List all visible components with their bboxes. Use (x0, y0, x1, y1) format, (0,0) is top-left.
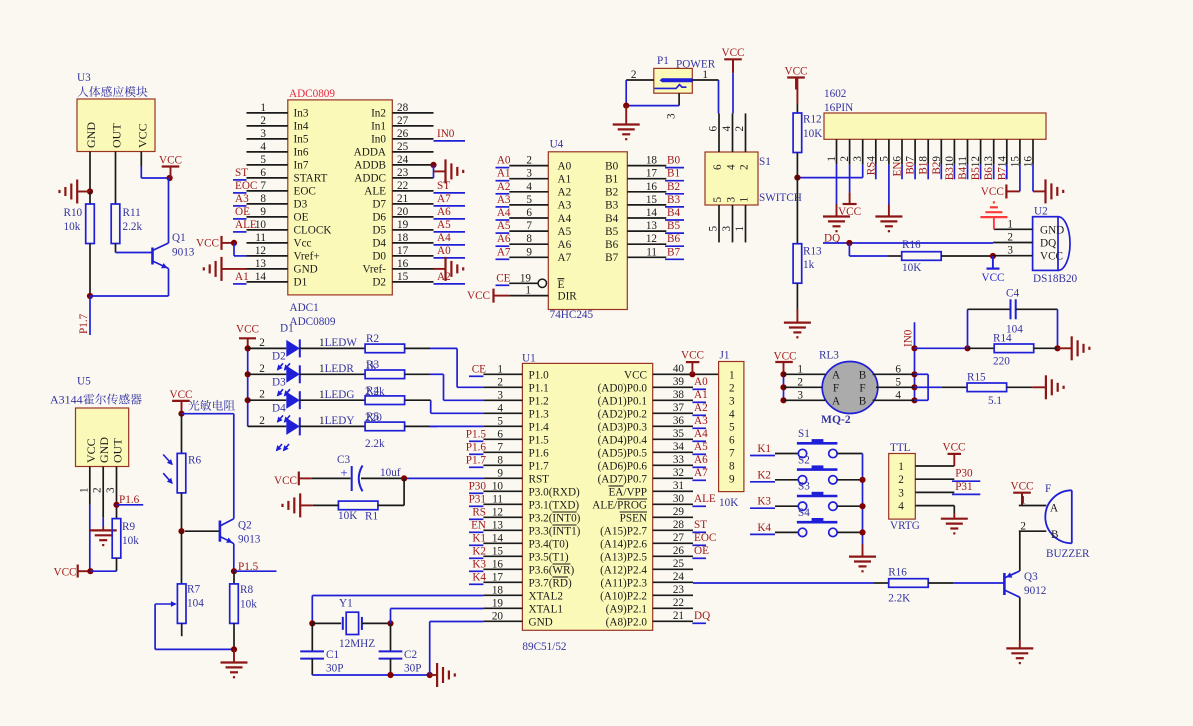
svg-text:ALE: ALE (364, 186, 386, 198)
svg-text:VCC: VCC (236, 324, 259, 336)
svg-text:7: 7 (497, 441, 503, 453)
svg-text:A3: A3 (235, 193, 249, 205)
svg-text:18: 18 (397, 232, 409, 244)
svg-text:1LEDY: 1LEDY (319, 415, 354, 427)
svg-text:VCC: VCC (467, 290, 490, 302)
svg-text:VCC: VCC (169, 389, 192, 401)
svg-text:12: 12 (646, 233, 657, 245)
svg-text:IN0: IN0 (437, 128, 455, 140)
svg-text:12MHZ: 12MHZ (339, 638, 375, 650)
svg-text:VCC: VCC (681, 350, 704, 362)
svg-text:K1: K1 (757, 443, 771, 455)
svg-text:MQ-2: MQ-2 (821, 413, 851, 426)
svg-text:D4: D4 (372, 238, 386, 250)
svg-text:5: 5 (708, 226, 720, 232)
svg-text:22: 22 (673, 597, 684, 609)
svg-text:D6: D6 (372, 212, 386, 224)
svg-text:3: 3 (726, 197, 738, 203)
svg-text:9012: 9012 (1024, 585, 1046, 597)
svg-text:D1: D1 (280, 323, 294, 335)
svg-text:CE: CE (472, 363, 486, 375)
svg-text:4: 4 (721, 126, 733, 132)
svg-text:36: 36 (673, 415, 685, 427)
svg-text:In2: In2 (371, 108, 386, 120)
svg-text:R8: R8 (240, 584, 253, 596)
svg-text:9013: 9013 (172, 247, 195, 259)
svg-text:9013: 9013 (238, 534, 261, 546)
svg-text:B7: B7 (667, 246, 680, 258)
svg-text:A1: A1 (558, 174, 572, 186)
svg-text:1: 1 (826, 156, 838, 162)
svg-text:P3.6(WR): P3.6(WR) (529, 564, 575, 576)
svg-text:ADDB: ADDB (354, 160, 386, 172)
svg-text:R15: R15 (967, 371, 986, 383)
svg-text:A1: A1 (694, 389, 708, 401)
svg-text:39: 39 (673, 376, 685, 388)
svg-text:(AD6)P0.6: (AD6)P0.6 (598, 460, 648, 472)
svg-text:B6: B6 (667, 233, 680, 245)
svg-text:S3: S3 (798, 481, 810, 493)
svg-text:R14: R14 (993, 333, 1012, 345)
svg-text:B: B (1051, 529, 1058, 541)
svg-text:2: 2 (259, 337, 265, 349)
svg-text:5: 5 (497, 415, 503, 427)
svg-text:22: 22 (397, 180, 408, 192)
svg-text:(A15)P2.7: (A15)P2.7 (600, 525, 647, 537)
svg-text:1k: 1k (803, 259, 815, 271)
svg-text:R13: R13 (803, 246, 822, 258)
svg-text:26: 26 (397, 128, 409, 140)
svg-text:P1.5: P1.5 (529, 434, 550, 446)
svg-text:D4: D4 (272, 403, 286, 415)
svg-text:10k: 10k (240, 599, 257, 611)
svg-text:24: 24 (397, 154, 409, 166)
svg-text:C4: C4 (1006, 288, 1019, 300)
svg-text:B1: B1 (667, 168, 680, 180)
svg-text:R2: R2 (366, 333, 379, 345)
svg-text:In3: In3 (294, 108, 309, 120)
svg-text:2.2K: 2.2K (888, 593, 910, 605)
svg-text:A0: A0 (558, 160, 572, 172)
svg-text:38: 38 (673, 389, 685, 401)
svg-text:P1.5: P1.5 (466, 428, 487, 440)
svg-text:GND: GND (1040, 224, 1064, 236)
svg-text:VCC: VCC (1040, 251, 1063, 263)
svg-text:25: 25 (673, 558, 685, 570)
svg-text:GND: GND (97, 437, 111, 463)
svg-text:XTAL1: XTAL1 (529, 603, 564, 615)
svg-text:24: 24 (673, 571, 685, 583)
svg-text:5: 5 (526, 194, 532, 206)
svg-text:A4: A4 (497, 207, 511, 219)
svg-text:B3: B3 (667, 194, 680, 206)
svg-text:IN0: IN0 (903, 329, 915, 347)
svg-text:A7: A7 (437, 193, 451, 205)
svg-text:5.1: 5.1 (988, 395, 1002, 407)
svg-text:3: 3 (898, 487, 904, 499)
svg-text:7: 7 (729, 447, 735, 459)
svg-text:B4: B4 (605, 213, 618, 225)
svg-text:5: 5 (878, 156, 890, 162)
svg-text:28: 28 (673, 519, 685, 531)
svg-text:28: 28 (397, 102, 409, 114)
svg-text:R1: R1 (365, 511, 378, 523)
svg-text:PSEN: PSEN (620, 512, 647, 524)
svg-text:S2: S2 (798, 454, 810, 466)
svg-text:B3: B3 (605, 200, 618, 212)
svg-text:37: 37 (673, 402, 685, 414)
svg-text:OE: OE (694, 545, 709, 557)
svg-text:15: 15 (492, 545, 504, 557)
svg-text:C1: C1 (326, 649, 339, 661)
svg-text:P3.7(RD): P3.7(RD) (529, 577, 572, 589)
svg-text:11: 11 (646, 246, 657, 258)
svg-text:P1.7: P1.7 (529, 460, 550, 472)
svg-text:15: 15 (646, 194, 658, 206)
svg-text:VCC: VCC (838, 206, 861, 218)
svg-text:TTL: TTL (890, 442, 911, 454)
svg-text:EOC: EOC (694, 532, 716, 544)
svg-text:D1: D1 (294, 277, 308, 289)
svg-text:(A14)P2.6: (A14)P2.6 (600, 538, 647, 550)
svg-text:3: 3 (721, 226, 733, 232)
svg-text:9: 9 (497, 467, 503, 479)
svg-text:20: 20 (492, 610, 504, 622)
svg-text:A2: A2 (694, 402, 708, 414)
svg-text:K4: K4 (757, 522, 771, 534)
svg-text:RL3: RL3 (819, 349, 839, 361)
svg-text:2: 2 (92, 487, 104, 493)
svg-text:4: 4 (260, 141, 266, 153)
svg-text:74HC245: 74HC245 (550, 309, 594, 321)
svg-text:U5: U5 (77, 376, 91, 388)
svg-text:P1.5: P1.5 (238, 561, 259, 573)
svg-text:A2: A2 (437, 271, 451, 283)
svg-text:D3: D3 (272, 377, 286, 389)
svg-text:8: 8 (260, 193, 266, 205)
svg-text:31: 31 (673, 480, 684, 492)
svg-text:1: 1 (525, 285, 531, 297)
svg-text:B5: B5 (605, 226, 618, 238)
svg-text:A3: A3 (497, 194, 511, 206)
svg-text:2: 2 (739, 164, 751, 170)
svg-text:P1.1: P1.1 (529, 382, 549, 394)
svg-text:17: 17 (397, 245, 409, 257)
svg-text:VCC: VCC (942, 442, 965, 454)
svg-text:D0: D0 (372, 251, 386, 263)
svg-text:U2: U2 (1034, 206, 1048, 218)
svg-text:B7: B7 (605, 252, 618, 264)
svg-text:11: 11 (492, 493, 503, 505)
svg-text:8: 8 (497, 454, 503, 466)
svg-text:B4: B4 (667, 207, 680, 219)
svg-text:2: 2 (631, 69, 637, 81)
svg-text:10K: 10K (719, 497, 738, 509)
svg-text:A0: A0 (694, 376, 708, 388)
svg-text:19: 19 (397, 219, 409, 231)
svg-text:VCC: VCC (721, 47, 744, 59)
svg-text:GND: GND (294, 264, 318, 276)
svg-text:9: 9 (729, 473, 735, 485)
svg-text:VCC: VCC (196, 237, 219, 249)
svg-text:21: 21 (397, 193, 408, 205)
svg-text:3: 3 (666, 113, 678, 119)
svg-text:26: 26 (673, 545, 685, 557)
svg-text:P31: P31 (955, 481, 972, 493)
svg-text:P3.2(INT0): P3.2(INT0) (529, 512, 581, 524)
svg-text:1: 1 (260, 102, 266, 114)
svg-text:33: 33 (673, 454, 685, 466)
svg-text:P1.4: P1.4 (529, 421, 550, 433)
svg-text:35: 35 (673, 428, 685, 440)
svg-text:20: 20 (397, 206, 409, 218)
svg-text:B0: B0 (667, 155, 680, 167)
svg-text:2.2k: 2.2k (123, 221, 143, 233)
svg-text:3: 3 (260, 128, 266, 140)
svg-text:A4: A4 (437, 232, 451, 244)
svg-text:K3: K3 (757, 496, 771, 508)
svg-text:30P: 30P (326, 663, 343, 675)
svg-text:16: 16 (397, 258, 409, 270)
svg-text:2: 2 (1020, 521, 1026, 533)
svg-text:A2: A2 (497, 181, 511, 193)
svg-text:CE: CE (496, 272, 510, 284)
svg-text:3: 3 (797, 389, 803, 401)
svg-text:Q2: Q2 (238, 520, 252, 532)
svg-text:R7: R7 (187, 584, 200, 596)
svg-text:23: 23 (397, 167, 409, 179)
svg-text:R11: R11 (123, 207, 141, 219)
svg-text:5: 5 (729, 421, 735, 433)
svg-text:VCC: VCC (53, 567, 76, 579)
svg-text:A1: A1 (497, 168, 511, 180)
svg-text:1: 1 (497, 363, 503, 375)
svg-text:17: 17 (646, 168, 658, 180)
svg-text:F: F (1045, 483, 1051, 495)
svg-text:7: 7 (526, 220, 532, 232)
svg-text:Vref-: Vref- (362, 264, 386, 276)
svg-text:6: 6 (712, 164, 724, 170)
svg-text:A6: A6 (694, 454, 708, 466)
svg-text:2: 2 (259, 363, 265, 375)
svg-text:EN: EN (471, 519, 486, 531)
svg-text:D2: D2 (272, 351, 286, 363)
svg-text:P1.2: P1.2 (529, 395, 549, 407)
svg-text:E: E (558, 279, 565, 291)
svg-text:P1.7: P1.7 (466, 454, 487, 466)
svg-text:2: 2 (734, 126, 746, 132)
svg-text:14: 14 (255, 271, 267, 283)
svg-text:In5: In5 (294, 134, 309, 146)
svg-text:29: 29 (673, 506, 685, 518)
svg-text:OUT: OUT (111, 438, 125, 463)
svg-text:EOC: EOC (294, 186, 316, 198)
svg-text:A4: A4 (694, 428, 708, 440)
svg-text:10K: 10K (338, 510, 357, 522)
svg-text:GND: GND (529, 616, 553, 628)
svg-text:4: 4 (726, 164, 738, 170)
svg-text:P3.5(T1): P3.5(T1) (529, 551, 569, 563)
svg-text:4: 4 (497, 402, 503, 414)
svg-text:9: 9 (260, 206, 266, 218)
svg-text:EA/VPP: EA/VPP (608, 486, 647, 498)
svg-text:A6: A6 (497, 233, 511, 245)
svg-text:6: 6 (708, 126, 720, 132)
svg-text:Q1: Q1 (172, 232, 186, 244)
svg-text:In4: In4 (294, 121, 309, 133)
svg-text:In1: In1 (371, 121, 386, 133)
svg-text:3: 3 (526, 168, 532, 180)
svg-text:(A10)P2.2: (A10)P2.2 (600, 590, 647, 602)
svg-text:13: 13 (492, 519, 504, 531)
svg-text:13: 13 (646, 220, 658, 232)
svg-text:D2: D2 (372, 277, 386, 289)
svg-text:S4: S4 (798, 507, 810, 519)
svg-text:3: 3 (1007, 245, 1013, 257)
svg-text:34: 34 (673, 441, 685, 453)
svg-text:ADDC: ADDC (354, 173, 386, 185)
svg-text:Vref+: Vref+ (294, 251, 320, 263)
svg-text:R16: R16 (902, 239, 921, 251)
svg-text:ALE: ALE (235, 219, 257, 231)
svg-text:U1: U1 (522, 353, 536, 365)
svg-text:2: 2 (260, 115, 266, 127)
svg-text:P31: P31 (469, 493, 486, 505)
svg-text:(AD3)P0.3: (AD3)P0.3 (598, 421, 648, 433)
svg-text:P30: P30 (955, 468, 973, 480)
svg-text:104: 104 (187, 598, 204, 610)
svg-text:(AD2)P0.2: (AD2)P0.2 (598, 408, 647, 420)
svg-text:VCC: VCC (1010, 481, 1033, 493)
svg-text:A: A (1050, 503, 1058, 515)
svg-text:1: 1 (797, 363, 803, 375)
svg-text:ST: ST (694, 519, 707, 531)
svg-text:OE: OE (294, 212, 309, 224)
svg-text:2: 2 (259, 415, 265, 427)
svg-text:A7: A7 (694, 467, 708, 479)
svg-text:30P: 30P (404, 663, 421, 675)
svg-text:VCC: VCC (981, 272, 1004, 284)
svg-text:10k: 10k (122, 535, 139, 547)
svg-text:DIR: DIR (558, 290, 578, 302)
svg-text:A5: A5 (497, 220, 511, 232)
svg-text:D7: D7 (372, 199, 386, 211)
svg-text:VCC: VCC (159, 154, 182, 166)
svg-text:12: 12 (492, 506, 503, 518)
svg-text:2: 2 (497, 376, 503, 388)
svg-text:VRTG: VRTG (890, 520, 920, 532)
svg-text:6: 6 (895, 363, 901, 375)
svg-text:27: 27 (673, 532, 685, 544)
svg-text:B6: B6 (605, 239, 618, 251)
svg-text:3: 3 (852, 156, 864, 162)
svg-text:(AD0)P0.0: (AD0)P0.0 (598, 382, 648, 394)
svg-text:220: 220 (993, 356, 1010, 368)
svg-text:10k: 10k (64, 221, 81, 233)
svg-text:4: 4 (895, 389, 901, 401)
svg-text:S1: S1 (759, 156, 771, 168)
svg-text:A7: A7 (497, 246, 511, 258)
svg-text:16: 16 (646, 181, 658, 193)
svg-text:(AD4)P0.4: (AD4)P0.4 (598, 434, 648, 446)
svg-text:START: START (294, 173, 328, 185)
svg-text:XTAL2: XTAL2 (529, 590, 564, 602)
svg-text:8: 8 (729, 460, 735, 472)
svg-text:A7: A7 (558, 252, 572, 264)
svg-text:B0: B0 (605, 160, 618, 172)
svg-text:(A12)P2.4: (A12)P2.4 (600, 564, 647, 576)
svg-text:C2: C2 (404, 649, 417, 661)
svg-text:2: 2 (839, 156, 851, 162)
svg-text:A5: A5 (558, 226, 572, 238)
svg-text:A2: A2 (558, 187, 572, 199)
svg-text:4: 4 (729, 408, 735, 420)
svg-text:A6: A6 (437, 206, 451, 218)
svg-text:A: A (832, 395, 840, 407)
svg-text:1: 1 (898, 461, 904, 473)
svg-text:1: 1 (729, 369, 735, 381)
svg-text:A5: A5 (437, 219, 451, 231)
svg-text:P3.4(T0): P3.4(T0) (529, 538, 569, 550)
svg-text:10K: 10K (803, 128, 822, 140)
svg-text:P1.3: P1.3 (529, 408, 550, 420)
svg-text:5: 5 (260, 154, 266, 166)
svg-text:B1: B1 (605, 174, 618, 186)
svg-text:21: 21 (673, 610, 684, 622)
svg-text:10: 10 (492, 480, 504, 492)
svg-text:89C51/52: 89C51/52 (522, 641, 566, 653)
svg-text:ST: ST (235, 167, 248, 179)
svg-text:B2: B2 (605, 187, 618, 199)
svg-text:K3: K3 (472, 558, 486, 570)
svg-text:A0: A0 (437, 245, 451, 257)
svg-text:R10: R10 (64, 207, 83, 219)
svg-text:K2: K2 (757, 469, 771, 481)
svg-text:2: 2 (898, 474, 904, 486)
svg-text:R6: R6 (188, 455, 201, 467)
svg-text:2: 2 (729, 382, 735, 394)
svg-text:A5: A5 (694, 441, 708, 453)
svg-text:A6: A6 (558, 239, 572, 251)
svg-text:ADDA: ADDA (354, 147, 386, 159)
svg-text:32: 32 (673, 467, 684, 479)
svg-text:P3.0(RXD): P3.0(RXD) (529, 486, 581, 498)
svg-text:VCC: VCC (981, 186, 1004, 198)
svg-text:40: 40 (673, 363, 685, 375)
svg-text:14: 14 (646, 207, 658, 219)
svg-text:(A8)P2.0: (A8)P2.0 (606, 616, 648, 628)
svg-text:A4: A4 (558, 213, 572, 225)
svg-text:GND: GND (84, 122, 98, 148)
svg-text:13: 13 (255, 258, 267, 270)
svg-text:P30: P30 (469, 480, 487, 492)
svg-text:R9: R9 (122, 521, 135, 533)
svg-text:14: 14 (492, 532, 504, 544)
svg-text:1LEDW: 1LEDW (319, 337, 357, 349)
svg-text:K2: K2 (472, 545, 486, 557)
svg-text:Vcc: Vcc (294, 238, 312, 250)
svg-text:(A13)P2.5: (A13)P2.5 (600, 551, 647, 563)
svg-text:F: F (833, 382, 839, 394)
svg-text:2: 2 (1007, 232, 1013, 244)
svg-text:1: 1 (78, 487, 90, 493)
svg-text:VCC: VCC (274, 475, 297, 487)
svg-text:27: 27 (397, 115, 409, 127)
svg-text:9: 9 (526, 246, 532, 258)
svg-text:R16: R16 (888, 566, 907, 578)
svg-text:A1: A1 (235, 271, 249, 283)
svg-text:16: 16 (492, 558, 504, 570)
